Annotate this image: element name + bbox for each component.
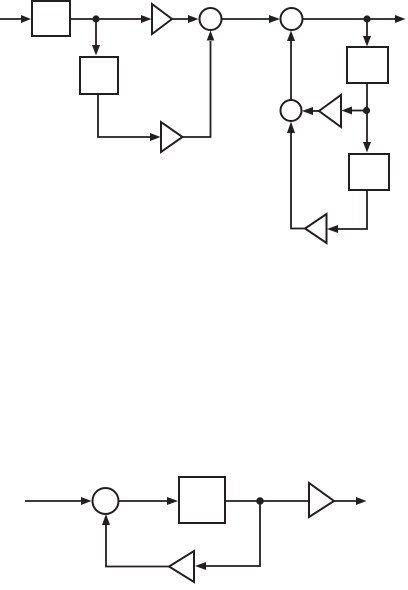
wire G1 to summing junction S1: [172, 15, 199, 23]
wire B3 down to block B4: [363, 83, 371, 153]
wire S2 to output: [303, 15, 406, 23]
wire G2 to summing junction S3: [302, 107, 319, 115]
gain G3 (left-pointing triangle): [305, 214, 327, 243]
summing junction S3: [281, 100, 302, 121]
wire node to gain G2: [342, 107, 364, 115]
wire S1 to summing junction S2: [222, 15, 281, 23]
wire B5 to gain G5: [225, 500, 309, 502]
wire junction down to block B2: [92, 19, 100, 56]
wire B2 down and right to gain G4: [98, 94, 161, 141]
block B5: [179, 477, 225, 523]
gain G2 (left-pointing triangle): [319, 95, 341, 127]
gain G4 (triangle): [161, 122, 183, 152]
wire G4 right and up to S1: [183, 31, 215, 138]
wire B1 to gain G1: [70, 15, 152, 23]
wire G6 left and up to S4: [102, 514, 169, 567]
node junction between B3 and B4: [363, 107, 370, 114]
block B1: [32, 1, 70, 36]
gain G6 (left-pointing triangle): [169, 551, 194, 582]
wire input to block B1: [0, 15, 31, 23]
summing junction S1: [200, 8, 222, 30]
wire node down to block B3: [363, 19, 371, 47]
block B3: [347, 47, 388, 83]
wire node down and left to gain G6: [195, 501, 260, 570]
wire B4 down and left to gain G3: [327, 190, 367, 233]
node junction after B5: [256, 497, 264, 505]
gain G1 (triangle): [152, 4, 172, 34]
wire input to summing junction S4 (bottom diagram): [25, 497, 92, 505]
wire S4 to block B5: [119, 497, 179, 505]
wire G5 to output: [334, 497, 367, 505]
summing junction S4: [93, 488, 119, 514]
gain G5 (triangle): [309, 483, 334, 517]
node junction after B1: [92, 15, 99, 22]
node junction on output line: [363, 15, 370, 22]
block B4: [349, 154, 389, 190]
summing junction S2: [281, 8, 303, 30]
wire S3 up to S2: [287, 31, 295, 101]
wire G3 left and up to S3: [287, 122, 305, 229]
block B2: [80, 57, 118, 94]
